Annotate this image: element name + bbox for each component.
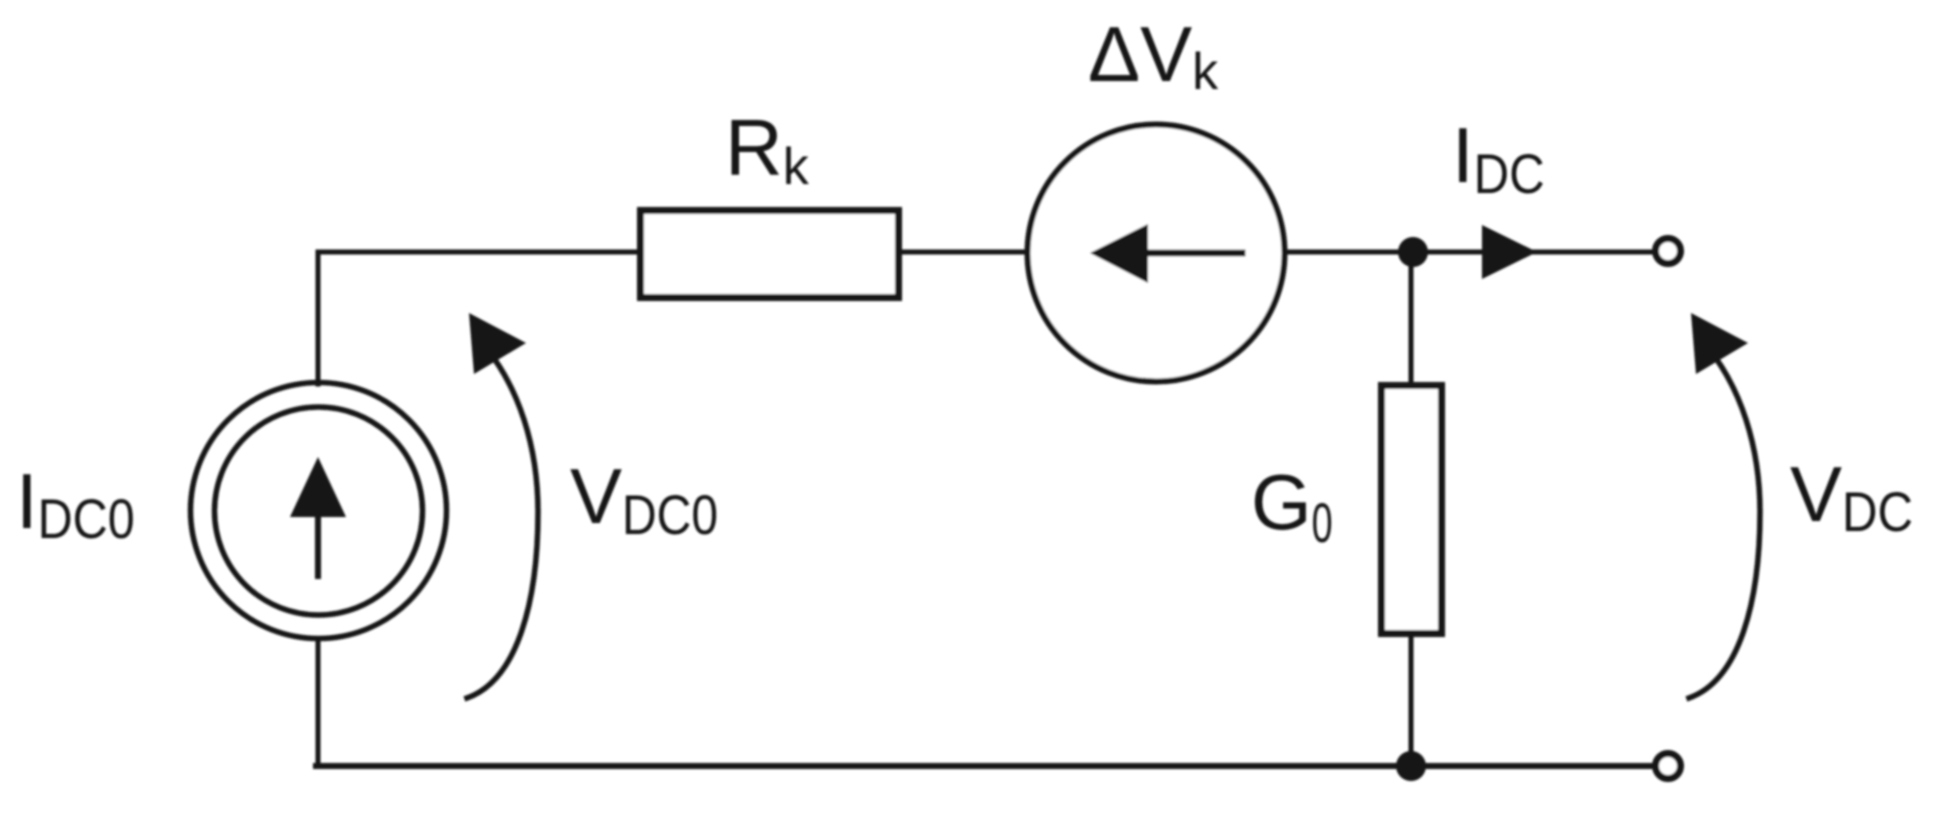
terminal top-right open circle	[1656, 239, 1681, 264]
svg-text:VDC: VDC	[1790, 450, 1913, 543]
resistor G0	[1382, 386, 1442, 634]
node B (bottom junction dot)	[1396, 751, 1426, 781]
current source IDC0 inner circle	[215, 407, 423, 615]
current source IDC0 outer circle	[191, 383, 447, 639]
terminal bottom-right open circle	[1656, 754, 1681, 779]
wire resistor to delta-Vk source	[902, 250, 1028, 255]
voltage source delta-Vk arrow	[1090, 224, 1242, 283]
svg-text:Rk: Rk	[725, 103, 810, 196]
wire bottom rail	[316, 763, 1653, 769]
IDC current arrowhead	[1482, 225, 1537, 279]
voltage source delta-Vk circle	[1028, 125, 1285, 382]
VDC0 voltage arc arrow	[467, 313, 538, 698]
current source IDC0 arrow	[290, 457, 346, 576]
VDC voltage arc arrow	[1689, 313, 1760, 698]
wire source bottom to bottom rail	[316, 639, 321, 766]
wire delta-Vk source to top-right terminal	[1284, 250, 1653, 255]
resistor Rk	[641, 211, 899, 298]
svg-text:IDC0: IDC0	[16, 457, 135, 550]
svg-text:G0: G0	[1251, 458, 1333, 554]
wire G0 to bottom rail	[1409, 635, 1414, 766]
wire top-left (source top to resistor)	[318, 252, 637, 384]
svg-text:VDC0: VDC0	[570, 452, 718, 546]
node A (top junction dot)	[1398, 237, 1428, 267]
svg-text:IDC: IDC	[1452, 111, 1545, 205]
svg-text:ΔVk: ΔVk	[1088, 10, 1219, 101]
wire node A down to G0	[1409, 252, 1414, 384]
